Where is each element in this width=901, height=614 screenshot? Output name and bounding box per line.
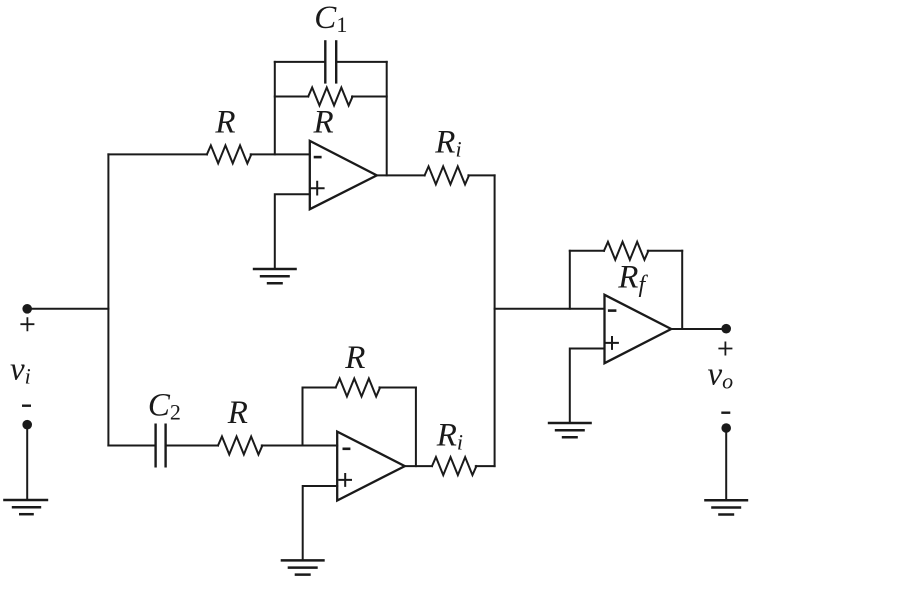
- op-amp U2: [337, 432, 405, 501]
- wire U3 feedback left vertical: [569, 251, 571, 309]
- wire feedback mid left segment: [275, 96, 308, 98]
- wire bottom branch left: [108, 445, 154, 447]
- wire U1 output: [377, 174, 425, 176]
- capacitor C2: [156, 424, 166, 468]
- wire C2 to resistor: [167, 445, 218, 447]
- wire vi minus to ground: [26, 425, 28, 500]
- resistor R bottom feedback: [336, 379, 380, 397]
- wire U2 feedback top left segment: [303, 387, 336, 389]
- svg-text:R: R: [313, 105, 334, 141]
- wire U1 feedback left vertical: [274, 62, 276, 154]
- op-amp U3: [605, 295, 672, 363]
- wire feedback top right segment: [336, 61, 387, 63]
- op-amp U1: [310, 141, 377, 209]
- wire right bus vertical: [494, 175, 496, 466]
- plus sign vi: [20, 317, 34, 331]
- minus sign vo: [721, 412, 730, 414]
- minus sign vi: [22, 405, 31, 407]
- node vi plus terminal: [22, 304, 32, 314]
- wire top branch left: [108, 153, 206, 155]
- ground U2: [281, 560, 325, 574]
- ground vo: [704, 500, 748, 514]
- ground vi: [3, 500, 48, 514]
- plus sign vo: [718, 342, 732, 356]
- resistor Ri top: [425, 166, 469, 184]
- wire U3 feedback top left segment: [570, 250, 604, 252]
- wire U3 feedback top right segment: [648, 250, 682, 252]
- wire U3 plus input: [570, 349, 605, 424]
- resistor R top feedback: [308, 88, 352, 106]
- node vo plus terminal: [721, 324, 731, 334]
- resistor Ri bottom: [432, 457, 476, 475]
- node vi minus terminal: [22, 420, 32, 430]
- ground U1: [253, 269, 297, 283]
- wire resistor to op-amp U2 minus: [262, 445, 337, 447]
- resistor Rf: [604, 242, 648, 260]
- wire U1 feedback right vertical: [386, 62, 388, 175]
- wire U2 feedback top right segment: [380, 387, 416, 389]
- wire U2 plus input: [303, 486, 338, 560]
- wire U2 feedback right vertical: [415, 388, 417, 467]
- svg-text:R: R: [227, 395, 248, 431]
- wire feedback top left segment: [275, 61, 326, 63]
- wire U2 output: [405, 465, 432, 467]
- wire left bus vertical: [107, 154, 109, 445]
- node vo minus terminal: [721, 423, 731, 433]
- ground U3: [548, 423, 592, 437]
- wire input node to left bus: [27, 308, 108, 310]
- wire resistor to op-amp U1 minus: [251, 153, 310, 155]
- wire vo minus to ground: [725, 428, 727, 500]
- wire feedback mid right segment: [352, 96, 387, 98]
- wire Ri to right bus: [468, 174, 494, 176]
- wire U3 output: [671, 328, 726, 330]
- capacitor C1: [325, 40, 336, 83]
- wire U1 plus input: [275, 194, 310, 269]
- wire right bus to op-amp U3: [495, 308, 605, 310]
- wire U2 feedback left vertical: [302, 388, 304, 446]
- wire U3 feedback right vertical: [681, 251, 683, 329]
- svg-text:R: R: [344, 340, 365, 376]
- svg-text:R: R: [214, 105, 235, 141]
- resistor R bottom input: [218, 437, 262, 455]
- wire Ri bottom to right bus: [476, 465, 495, 467]
- resistor R top input: [207, 145, 251, 163]
